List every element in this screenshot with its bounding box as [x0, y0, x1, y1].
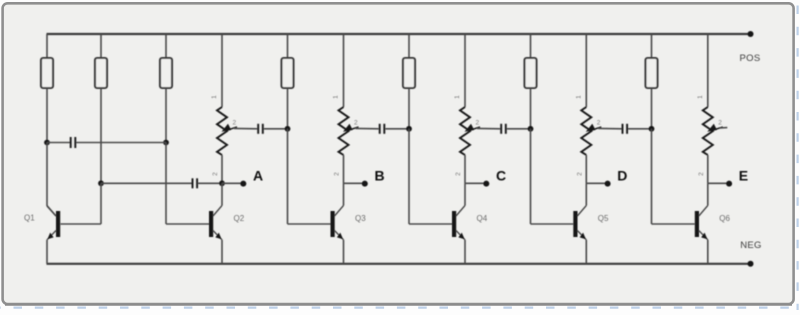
svg-text:1: 1	[697, 95, 704, 99]
svg-text:2: 2	[212, 172, 219, 176]
wire node E to Q6 collector	[707, 183, 709, 205]
svg-text:2: 2	[455, 172, 462, 176]
wire node A to Q2 collector	[221, 183, 223, 205]
wire R5 bottom to node	[408, 88, 410, 129]
wire VR3 wiper to capacitor C5	[477, 127, 500, 129]
resistor R7	[646, 58, 658, 88]
wire VR2 bottom to node B	[343, 155, 345, 183]
wire Q1 collector to capacitor C1	[47, 142, 70, 144]
junction: Q1 collector node	[44, 140, 50, 146]
potentiometer VR5 (variable resistor)	[703, 107, 713, 155]
dashed page background line (right)	[796, 0, 798, 310]
wire capacitor C2 to node A	[198, 182, 222, 184]
svg-text:2: 2	[698, 172, 705, 176]
capacitor C2	[193, 178, 198, 188]
node NEG terminal	[748, 261, 754, 267]
junction: Q5 base node	[528, 126, 534, 132]
wire R1 top	[46, 34, 48, 58]
dashed page background line (bottom)	[0, 307, 800, 309]
junction: Q1 base node	[98, 180, 104, 186]
capacitor C3	[258, 124, 263, 134]
svg-text:POS: POS	[740, 53, 761, 64]
schematic frame bottom shadow edge	[5, 304, 792, 306]
wire to Q3 base	[288, 223, 331, 225]
svg-text:1: 1	[454, 95, 461, 99]
svg-text:Q5: Q5	[598, 214, 609, 223]
potentiometer VR3 (variable resistor)	[460, 107, 470, 155]
svg-text:1: 1	[333, 95, 340, 99]
wire to Q1 base	[61, 223, 102, 225]
wire VR1 bottom to node A	[221, 155, 223, 183]
svg-text:Q6: Q6	[719, 214, 730, 223]
svg-text:2: 2	[354, 120, 358, 127]
wire to Q5 base	[531, 223, 574, 225]
svg-text:NEG: NEG	[740, 240, 762, 251]
transistor Q6 (NPN)	[695, 206, 708, 240]
svg-text:E: E	[739, 168, 748, 184]
wire VR5 bottom to node E	[707, 155, 709, 183]
wire capacitor C1 to Q2 base node	[76, 142, 166, 144]
wire POS to VR2 top	[343, 34, 345, 107]
svg-text:C: C	[496, 168, 506, 184]
wire R6 bottom to node	[530, 88, 532, 129]
junction: Q3 base node	[285, 126, 291, 132]
capacitor C4	[380, 124, 385, 134]
svg-text:1: 1	[575, 95, 582, 99]
svg-text:2: 2	[576, 172, 583, 176]
wire node down to Q1 base level	[100, 183, 102, 224]
transistor Q3 (NPN)	[331, 206, 344, 240]
wire to Q4 base	[409, 223, 452, 225]
wire capacitor C4 to Q4 base node	[385, 128, 409, 130]
wire R7 top	[651, 34, 653, 58]
svg-text:2: 2	[597, 120, 601, 127]
potentiometer VR4 (variable resistor)	[581, 107, 591, 155]
wire VR4 bottom to node D	[585, 155, 587, 183]
node POS terminal	[748, 31, 754, 37]
wire Q4 emitter to NEG rail	[464, 240, 466, 264]
wire node down to Q4 base level	[408, 129, 410, 224]
node output terminal C	[483, 181, 489, 187]
wire POS to VR4 top	[585, 34, 587, 107]
wire R2 top	[100, 34, 102, 58]
svg-text:Q3: Q3	[355, 214, 366, 223]
svg-text:Q1: Q1	[24, 214, 35, 223]
wire R4 top	[287, 34, 289, 58]
wire POS to VR5 top	[707, 34, 709, 107]
wire Q5 emitter to NEG rail	[585, 240, 587, 264]
wire capacitor C3 to Q3 base node	[264, 128, 288, 130]
wire: NEG supply rail	[47, 263, 751, 265]
wire POS to VR3 top	[464, 34, 466, 107]
transistor Q1 (NPN)	[47, 206, 60, 240]
svg-text:B: B	[375, 168, 385, 184]
node output terminal D	[605, 181, 611, 187]
wire node D to Q5 collector	[585, 183, 587, 205]
VR5 wiper arrow (pin 2)	[715, 127, 723, 130]
wire node B to Q3 collector	[343, 183, 345, 205]
wire R1 bottom to node	[46, 88, 48, 143]
wire R3 bottom to node	[165, 88, 167, 143]
junction: C1 to Q2 base node	[163, 140, 169, 146]
wire VR5 wiper stub	[720, 127, 728, 129]
svg-text:D: D	[617, 168, 627, 184]
wire node down to Q2 base level	[165, 143, 167, 225]
wire node to Q1 collector	[46, 143, 48, 207]
transistor Q5 (NPN)	[573, 206, 586, 240]
wire node down to Q5 base level	[530, 129, 532, 224]
wire VR4 wiper to capacitor C6	[598, 127, 621, 129]
svg-text:2: 2	[718, 120, 722, 127]
svg-text:Q2: Q2	[234, 214, 245, 223]
capacitor C1	[71, 137, 76, 148]
wire R5 top	[408, 34, 410, 58]
svg-text:1: 1	[211, 95, 218, 99]
svg-text:2: 2	[334, 172, 341, 176]
svg-text:Q4: Q4	[477, 214, 488, 223]
VR1 wiper arrow (pin 2)	[229, 127, 237, 130]
capacitor C5	[501, 124, 506, 134]
VR4 wiper arrow (pin 2)	[593, 127, 601, 130]
svg-text:A: A	[253, 168, 263, 184]
wire Q1 base node to capacitor C2	[101, 182, 192, 184]
junction: Q4 base node	[406, 126, 412, 132]
wire node C to Q4 collector	[464, 183, 466, 205]
wire node to output C	[465, 182, 486, 184]
wire VR2 wiper to capacitor C4	[356, 127, 379, 129]
resistor R5	[403, 58, 415, 88]
wire to Q6 base	[652, 223, 695, 225]
resistor R2	[95, 58, 107, 88]
transistor Q2 (NPN)	[209, 206, 222, 240]
wire POS to VR1 top	[221, 34, 223, 107]
wire Q3 emitter to NEG rail	[343, 240, 345, 264]
resistor R3	[160, 58, 172, 88]
wire: POS supply rail	[47, 33, 751, 35]
wire node down to Q3 base level	[287, 129, 289, 224]
node output terminal B	[362, 181, 368, 187]
capacitor C6	[623, 124, 628, 134]
wire Q6 emitter to NEG rail	[707, 240, 709, 264]
wire node down to Q6 base level	[651, 129, 653, 224]
svg-text:2: 2	[233, 120, 237, 127]
transistor Q4 (NPN)	[452, 206, 465, 240]
wire Q1 collector lead	[47, 206, 56, 216]
wire R7 bottom to node	[651, 88, 653, 129]
wire R3 top	[165, 34, 167, 58]
wire to Q2 base	[166, 223, 209, 225]
wire node to output B	[344, 182, 365, 184]
wire node to output A	[222, 182, 243, 184]
resistor R1	[41, 58, 53, 88]
VR2 wiper arrow (pin 2)	[351, 127, 359, 130]
wire R4 bottom to node	[287, 88, 289, 129]
node output terminal A	[240, 181, 246, 187]
wire capacitor C6 to Q6 base node	[628, 128, 651, 130]
wire Q1 emitter to NEG rail	[46, 240, 48, 264]
wire node to output E	[708, 182, 729, 184]
wire VR1 wiper to capacitor C3	[234, 127, 257, 129]
VR3 wiper arrow (pin 2)	[472, 127, 480, 130]
wire node to output D	[586, 182, 607, 184]
junction: Q6 base node	[649, 126, 655, 132]
potentiometer VR2 (variable resistor)	[339, 107, 349, 155]
svg-text:2: 2	[476, 120, 480, 127]
junction: node A (4-way)	[219, 180, 225, 186]
wire VR3 bottom to node C	[464, 155, 466, 183]
potentiometer VR1 (variable resistor)	[217, 107, 227, 155]
wire Q2 emitter to NEG rail	[221, 240, 223, 264]
wire capacitor C5 to Q5 base node	[507, 128, 531, 130]
wire R6 top	[530, 34, 532, 58]
node output terminal E	[726, 181, 732, 187]
wire R2 bottom to node	[100, 88, 102, 183]
resistor R6	[525, 58, 537, 88]
resistor R4	[282, 58, 294, 88]
